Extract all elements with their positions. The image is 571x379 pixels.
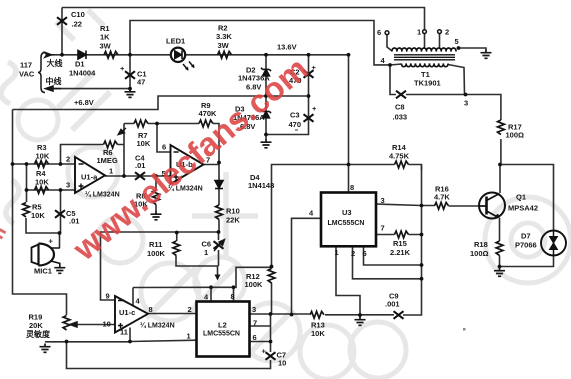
arrow C6 bottom [215, 275, 221, 281]
resistor R10 [216, 205, 223, 220]
svg-text:10K: 10K [311, 329, 325, 338]
resistor R13 [310, 311, 324, 318]
svg-text:2: 2 [66, 155, 70, 164]
wire top rail 1 [62, 8, 425, 30]
svg-text:2: 2 [188, 305, 192, 314]
wire U3 pin3 R16 [376, 204, 479, 206]
svg-text:1: 1 [204, 248, 208, 257]
svg-text:7: 7 [381, 224, 385, 233]
svg-text:D1: D1 [75, 60, 85, 69]
capacitor C6 [214, 241, 224, 249]
wire R6 feedback [61, 145, 125, 165]
svg-text:.22: .22 [72, 20, 82, 29]
wire L2 pin4 stub [210, 287, 212, 301]
svg-text:100K: 100K [147, 249, 166, 258]
wire left rail down to pot [13, 110, 67, 316]
wire op1 out column [105, 124, 124, 177]
capacitor C3 [304, 114, 314, 122]
svg-text:MPSA42: MPSA42 [508, 204, 538, 213]
resistor R12 [268, 269, 275, 284]
wire C2 C3 column [266, 55, 309, 135]
svg-text:4.7K: 4.7K [434, 193, 450, 202]
IC L2 box [197, 302, 250, 357]
wire U3 pin7 R15 [376, 234, 422, 236]
svg-text:+: + [49, 237, 54, 246]
wire L2 pin6 [250, 341, 271, 343]
svg-text:22K: 22K [226, 216, 240, 225]
wire line to pin9 [101, 232, 219, 300]
svg-text:VAC: VAC [19, 70, 35, 79]
xfmr pin 6 terminal [385, 31, 389, 35]
ground pot [40, 344, 51, 353]
wire R5 branch [26, 190, 60, 233]
op-amp U1-c [115, 296, 148, 333]
resistor R4 [35, 187, 49, 194]
junction (219,162.5) [217, 161, 221, 165]
svg-text:100K: 100K [245, 280, 264, 289]
junction (421.5,265) [420, 263, 424, 267]
svg-text:.033: .033 [393, 113, 408, 122]
wire C5 branch [60, 190, 62, 233]
junction (26.5,164) [25, 162, 29, 166]
svg-text:.01: .01 [69, 217, 79, 226]
wire R17 column [466, 95, 501, 165]
svg-text:¼ LM324N: ¼ LM324N [140, 322, 175, 330]
junction (360,315) [358, 313, 362, 317]
junction (458.5,48) [457, 46, 461, 50]
svg-text:中线: 中线 [46, 76, 62, 86]
potentiometer R19 [63, 316, 70, 331]
capacitor C4 [135, 172, 145, 180]
svg-text:LMC555CN: LMC555CN [328, 220, 365, 227]
red watermark www.elecfans.com [65, 50, 315, 268]
wire xfmr pin1 lead [424, 34, 426, 49]
svg-text:6: 6 [162, 143, 166, 152]
svg-text:TK1901: TK1901 [414, 79, 441, 88]
junction (218.5,232) [217, 230, 221, 234]
svg-text:LED1: LED1 [166, 37, 185, 46]
svg-text:3: 3 [464, 99, 468, 108]
ground xfmr [481, 50, 492, 59]
svg-text:R18: R18 [474, 240, 488, 249]
zener D2 [261, 68, 271, 76]
wire L2 pin7 [250, 325, 271, 327]
capacitor C8 [396, 91, 406, 99]
svg-text:+: + [120, 64, 125, 73]
svg-text:C8: C8 [395, 103, 405, 112]
svg-text:6: 6 [253, 333, 257, 342]
diode D4 [215, 181, 223, 189]
wire R7 R9 line [124, 124, 219, 163]
svg-text:U3: U3 [342, 208, 352, 217]
wire U3 pin1 [336, 246, 360, 315]
svg-text:+: + [312, 63, 317, 72]
junction (348.5,54.8) [347, 53, 351, 57]
wire L2 pin3 line [250, 165, 422, 315]
svg-text:6: 6 [377, 28, 381, 37]
wire Q1 collector column [499, 165, 501, 194]
wire Q1 emitter R18 [499, 218, 501, 268]
transformer T1 secondary [401, 64, 448, 67]
arrow hot [47, 54, 54, 56]
junction (130,341.5) [128, 340, 132, 344]
transformer T1 core [394, 55, 455, 60]
capacitor C7 [266, 352, 276, 360]
wire U1b pin6 [157, 124, 171, 153]
junction (211,287.3) [209, 285, 213, 289]
junction (60.5,190) [59, 188, 63, 192]
diode D1 [78, 51, 86, 60]
svg-text:1N4148: 1N4148 [248, 181, 274, 190]
diode D7 [541, 231, 566, 256]
junction (266,54.8) [264, 53, 268, 57]
capacitor C2 [304, 70, 314, 78]
capacitor C9 [394, 311, 404, 319]
svg-text:100Ω: 100Ω [506, 131, 525, 140]
AC source arrows and brace [38, 52, 61, 92]
svg-text:4.75K: 4.75K [389, 152, 410, 161]
junction (499.5,266.5) [498, 265, 502, 269]
svg-text:1MEG: 1MEG [97, 156, 118, 165]
svg-text:8: 8 [231, 292, 235, 301]
transistor Q1 [479, 193, 505, 219]
junction (421.5,234.5) [420, 233, 424, 237]
svg-text:.01: .01 [135, 161, 145, 170]
junction (500,164.5) [498, 163, 502, 167]
junction (270.5,314) [269, 312, 273, 316]
svg-text:1: 1 [335, 248, 339, 257]
resistor R1 [104, 51, 118, 58]
svg-text:11: 11 [120, 328, 128, 337]
wire xfmr pin2 lead [439, 34, 441, 49]
svg-text:470: 470 [289, 120, 302, 129]
junction (124,176) [122, 174, 126, 178]
svg-text:8: 8 [350, 183, 354, 192]
svg-text:3: 3 [381, 196, 385, 205]
resistor R15 [395, 231, 409, 238]
wire C10 branch [61, 8, 63, 55]
svg-text:C10: C10 [71, 10, 85, 19]
svg-text:R10: R10 [226, 207, 240, 216]
wire C6 branch [218, 232, 219, 277]
junction (156,176) [154, 174, 158, 178]
svg-text:R11: R11 [149, 240, 162, 249]
svg-text:+6.8V: +6.8V [74, 98, 94, 107]
xfmr pin 2 terminal [438, 30, 442, 34]
wire C8 line [390, 65, 466, 95]
svg-text:3W: 3W [100, 42, 112, 51]
resistor R17 [498, 120, 505, 135]
svg-text:3: 3 [252, 305, 256, 314]
junction (291.5,314.5) [290, 313, 294, 317]
svg-text:7: 7 [253, 319, 257, 328]
junction (26.5,190) [25, 188, 29, 192]
svg-text:1N4004: 1N4004 [69, 69, 96, 78]
resistor R18 [496, 241, 503, 256]
resistor R14 [395, 161, 409, 168]
wire U1c out to L2 pin2 [148, 313, 197, 315]
junction (390,65) [388, 63, 392, 67]
svg-text:20K: 20K [29, 321, 43, 330]
resistor R9 [199, 120, 213, 127]
arrow neutral [53, 88, 61, 90]
svg-text:L2: L2 [218, 321, 227, 330]
IC U3 box [321, 193, 376, 247]
xfmr pin 1 terminal [423, 30, 427, 34]
ground R8 [151, 211, 162, 220]
svg-text:1: 1 [187, 332, 191, 341]
junction (266,134.5) [264, 133, 268, 137]
svg-text:大线: 大线 [47, 58, 63, 68]
wire U1c pin4 stub [132, 288, 134, 307]
svg-text:10K: 10K [35, 178, 49, 187]
junction (176.75,232.5) [175, 231, 179, 235]
resistor R5 [23, 203, 30, 218]
svg-text:10K: 10K [36, 152, 50, 161]
junction (308.5,96) [307, 94, 311, 98]
junction (271.5,266.5) [270, 265, 274, 269]
junction (130,54.8) [128, 53, 132, 57]
junction (59.5,233) [58, 231, 62, 235]
capacitor C10 [57, 17, 67, 25]
transformer T1 primary [392, 48, 456, 52]
wire AC hot line [47, 54, 171, 56]
svg-text:117: 117 [20, 61, 32, 70]
resistor R16 [435, 202, 449, 209]
ground Q1 [494, 268, 505, 277]
svg-text:10K: 10K [137, 139, 151, 148]
wire D7 branch [500, 165, 554, 267]
svg-text:3: 3 [66, 181, 70, 190]
resistor R7 [134, 120, 148, 127]
wire U3 pin2 [353, 246, 422, 278]
junction (233.5,287.3) [232, 285, 236, 289]
junction (421.5,278.8) [420, 277, 424, 281]
wire pot wiper [77, 324, 116, 326]
svg-text:8: 8 [149, 305, 153, 314]
op-amp U1-b [171, 145, 204, 184]
wire xfmr pin6 lead [387, 35, 392, 52]
wire 13.6V column to U3 pin8 [348, 55, 350, 193]
wire R11 branch [176, 233, 219, 267]
capacitor C1 [125, 71, 135, 79]
svg-text:U1-c: U1-c [119, 308, 135, 317]
svg-text:C3: C3 [290, 111, 300, 120]
wire C7 column [270, 314, 272, 352]
microphone MIC1 [32, 244, 60, 266]
ground C1 [125, 89, 136, 98]
svg-text:R15: R15 [393, 239, 407, 248]
svg-text:10: 10 [278, 359, 286, 368]
wire top rail 2 [130, 21, 390, 65]
wire ground line [45, 340, 197, 342]
svg-text:MIC1: MIC1 [34, 267, 52, 276]
svg-text:U1-a: U1-a [81, 173, 98, 182]
svg-text:100Ω: 100Ω [470, 249, 489, 258]
junction (60.5,164) [59, 162, 63, 166]
junction (270.5,341.5) [269, 340, 273, 344]
junction (266,96) [264, 94, 268, 98]
resistor R3 [35, 161, 49, 168]
svg-text:3W: 3W [218, 41, 230, 50]
svg-text:10: 10 [103, 320, 111, 329]
LED1 [171, 48, 195, 71]
wire xfmr secondary left lead [390, 64, 402, 65]
zener D3 [261, 110, 271, 118]
svg-text:6: 6 [363, 249, 367, 258]
capacitor C5 [55, 210, 65, 218]
wire hot line mid [186, 54, 349, 56]
wire op1 pin2 line [13, 163, 76, 165]
speck [463, 328, 466, 331]
wire R12 column [272, 165, 273, 315]
op-amp U1-a [75, 157, 105, 193]
svg-text:LMC555CN: LMC555CN [203, 331, 240, 338]
svg-text:+: + [262, 347, 267, 356]
wire U1c pin11 stub [129, 328, 131, 342]
wire U3 pin4 [292, 218, 322, 314]
svg-text:5: 5 [455, 37, 459, 46]
svg-text:2: 2 [445, 28, 449, 37]
ground D3 [261, 139, 272, 148]
svg-text:.001: .001 [385, 300, 400, 309]
resistor R6 [104, 141, 118, 148]
arrow mark near R7 [118, 128, 126, 135]
svg-text:1: 1 [417, 28, 421, 37]
svg-text:9: 9 [106, 292, 110, 301]
junction (465.5,94.5) [464, 93, 468, 97]
junction (62,54.8) [60, 53, 64, 57]
wire C4 pin5 line [124, 175, 171, 177]
ground mic [54, 265, 65, 274]
svg-text:10K: 10K [31, 211, 45, 220]
wire C1 branch [129, 55, 131, 89]
junction (12.5,164) [11, 162, 15, 166]
wire neutral line [47, 88, 130, 90]
wire R14 line [273, 165, 422, 171]
svg-text:D7: D7 [521, 232, 531, 241]
ground mid R13 [355, 317, 366, 326]
wire L2 pin8 stub [233, 287, 235, 301]
junction (130,88.6) [128, 87, 132, 91]
svg-text:2.21K: 2.21K [390, 248, 411, 257]
wire +6.8V rail [13, 96, 309, 110]
wire mid ground stub [359, 315, 361, 317]
junction (66.5,341.5) [65, 340, 69, 344]
junction (421.5,205.5) [420, 204, 424, 208]
wire xfmr pin5 to gnd [459, 48, 487, 50]
junction (308.5,54.8) [307, 53, 311, 57]
svg-text:1: 1 [109, 167, 113, 176]
wire U1b out D4 R10 [204, 163, 220, 233]
wire mic stub [59, 233, 61, 248]
svg-text:2: 2 [351, 249, 355, 258]
wire D2 D3 column [265, 55, 267, 139]
svg-text:灵敏度: 灵敏度 [25, 329, 51, 339]
wire bottom rail [67, 342, 271, 369]
wire R8 branch [155, 176, 157, 211]
svg-text:Q1: Q1 [516, 193, 526, 202]
wire op1 pin3 line [27, 164, 76, 190]
resistor R2 [218, 51, 232, 58]
junction (348.5,164.5) [347, 163, 351, 167]
svg-text:13.6V: 13.6V [277, 43, 297, 52]
svg-text:+: + [312, 104, 317, 113]
wire xfmr secondary right lead [448, 65, 465, 95]
resistor R11 [173, 241, 180, 256]
junction (157,123.5) [155, 122, 159, 126]
svg-text:47: 47 [137, 78, 145, 87]
brace 117VAC [38, 53, 45, 93]
wire U3 pin6 [364, 246, 422, 265]
resistor R8 [153, 190, 160, 205]
svg-text:P7066: P7066 [515, 241, 537, 250]
svg-text:1K: 1K [100, 33, 110, 42]
wire L2 V+ rail [133, 267, 272, 287]
svg-text:3.3K: 3.3K [216, 32, 232, 41]
